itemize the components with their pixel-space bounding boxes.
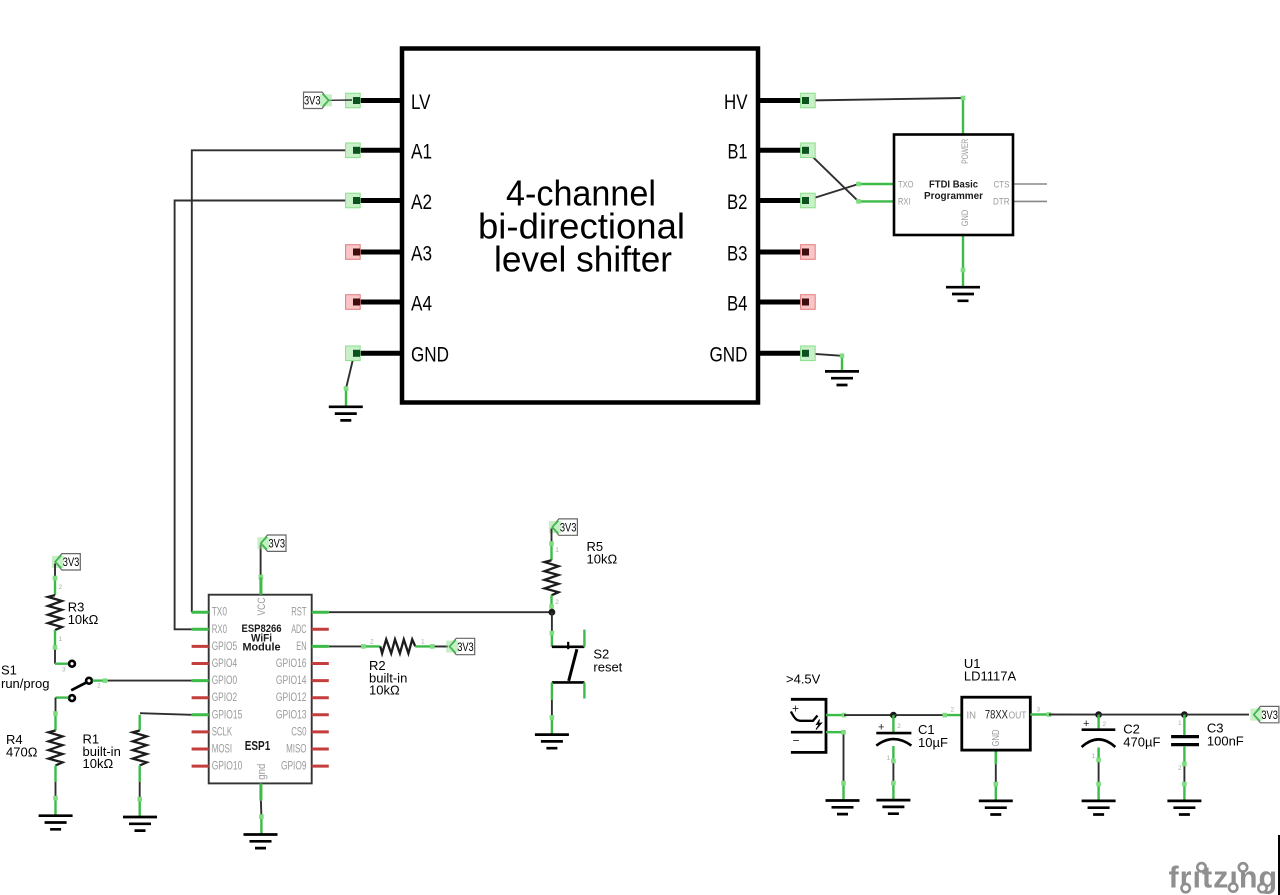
svg-text:3V3: 3V3 [269,537,286,551]
svg-text:DTR: DTR [993,197,1010,208]
svg-text:2: 2 [370,639,374,646]
svg-text:Module: Module [243,642,281,654]
svg-text:1: 1 [421,639,425,646]
svg-text:MISO: MISO [286,744,306,756]
svg-text:1: 1 [59,636,63,643]
svg-text:2: 2 [1178,765,1182,772]
svg-text:1: 1 [887,755,891,762]
svg-text:GPIO15: GPIO15 [212,709,243,721]
svg-text:2: 2 [97,683,101,690]
svg-text:GPIO14: GPIO14 [276,675,307,687]
svg-text:LD1117A: LD1117A [964,669,1017,684]
svg-text:CS0: CS0 [291,726,306,738]
svg-text:A3: A3 [411,242,432,265]
svg-text:GPIO12: GPIO12 [276,692,307,704]
svg-text:HV: HV [724,91,748,114]
svg-text:>4.5V: >4.5V [786,672,821,687]
svg-text:MOSI: MOSI [212,744,232,756]
svg-text:POWER: POWER [960,139,971,164]
svg-text:3V3: 3V3 [304,94,321,108]
svg-text:VCC: VCC [256,597,268,615]
svg-text:EN: EN [296,641,306,653]
svg-text:GPIO2: GPIO2 [212,692,238,704]
svg-text:A2: A2 [411,191,432,214]
svg-text:OUT: OUT [1009,709,1027,721]
svg-text:−: − [793,734,800,748]
svg-text:level shifter: level shifter [494,239,672,280]
svg-text:3: 3 [1037,707,1041,714]
svg-text:+: + [878,722,884,734]
svg-text:CTS: CTS [994,179,1010,190]
svg-text:470µF: 470µF [1123,734,1160,749]
svg-text:TXO: TXO [898,179,914,190]
svg-text:1: 1 [555,547,559,554]
svg-text:2: 2 [555,599,559,606]
svg-text:GPIO0: GPIO0 [212,675,238,687]
svg-text:3V3: 3V3 [63,555,80,569]
svg-text:B2: B2 [727,191,748,214]
svg-text:LV: LV [411,91,431,114]
svg-text:3V3: 3V3 [457,640,474,654]
svg-text:GPIO9: GPIO9 [281,761,307,773]
svg-text:1: 1 [1178,720,1182,727]
svg-text:1: 1 [1092,753,1096,760]
svg-text:RST: RST [291,607,306,619]
svg-text:B4: B4 [727,292,748,315]
svg-text:B3: B3 [727,242,748,265]
svg-text:+: + [1083,718,1089,730]
svg-text:2: 2 [951,707,955,714]
svg-text:10kΩ: 10kΩ [587,551,618,566]
svg-text:470Ω: 470Ω [6,745,38,760]
svg-text:10kΩ: 10kΩ [68,612,99,627]
svg-text:gnd: gnd [256,764,268,780]
svg-text:3: 3 [62,667,66,674]
svg-text:2: 2 [1103,721,1107,728]
svg-text:A1: A1 [411,141,432,164]
svg-text:ESP1: ESP1 [245,738,271,753]
svg-text:GPIO13: GPIO13 [276,709,307,721]
svg-text:78XX: 78XX [985,710,1008,722]
svg-text:A4: A4 [411,292,432,315]
svg-text:B1: B1 [728,141,748,164]
svg-text:3V3: 3V3 [560,520,577,534]
svg-text:IN: IN [967,709,977,721]
svg-text:GPIO4: GPIO4 [212,658,238,670]
svg-text:GND: GND [710,344,748,367]
svg-text:3V3: 3V3 [1261,708,1278,722]
svg-text:100nF: 100nF [1207,733,1244,748]
svg-text:GPIO5: GPIO5 [212,641,238,653]
svg-text:run/prog: run/prog [1,676,49,691]
svg-text:TX0: TX0 [212,607,227,619]
svg-text:GND: GND [960,210,971,227]
svg-text:2: 2 [897,723,901,730]
svg-text:GND: GND [990,729,1002,746]
svg-text:reset: reset [593,660,622,675]
svg-text:10kΩ: 10kΩ [369,683,400,698]
svg-text:FTDI Basic: FTDI Basic [929,179,978,191]
svg-text:RXI: RXI [898,197,911,208]
svg-text:RX0: RX0 [212,624,227,636]
svg-text:ADC: ADC [291,624,306,636]
svg-text:SCLK: SCLK [212,726,233,738]
svg-text:Programmer: Programmer [924,190,983,202]
svg-text:10kΩ: 10kΩ [83,756,114,771]
svg-text:GPIO16: GPIO16 [276,658,307,670]
svg-text:10µF: 10µF [918,735,948,750]
svg-text:GPIO10: GPIO10 [212,761,243,773]
svg-text:GND: GND [411,344,449,367]
svg-text:2: 2 [59,584,63,591]
